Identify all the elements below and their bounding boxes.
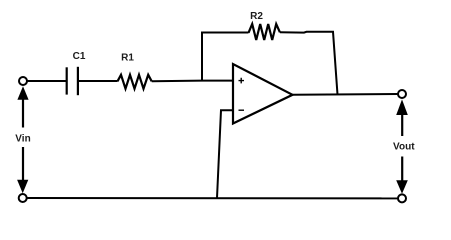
resistor R2: [249, 24, 280, 40]
svg-text:Vin: Vin: [15, 134, 30, 145]
terminal: Vin bottom-left: [19, 194, 27, 202]
wire: bottom rail: [27, 197, 398, 199]
Vin arrow (double-headed, between left terminals): [17, 86, 29, 193]
op-amp - input marking: [239, 109, 245, 111]
Vout arrow (double-headed, between right terminals): [396, 99, 408, 193]
svg-text:R1: R1: [121, 53, 134, 64]
svg-text:C1: C1: [73, 51, 86, 62]
op-amp U1: [233, 64, 293, 124]
op-amp + input marking: [239, 78, 245, 84]
wire: Vin+ terminal to C1 left plate: [27, 80, 66, 82]
wire: C1 right plate to R1: [79, 80, 118, 82]
wire: R2 right lead to output node (corner and slanted drop): [280, 32, 338, 95]
resistor R1: [118, 75, 152, 89]
terminal: Vin top-left: [19, 77, 27, 85]
terminal: Vout bottom-right: [398, 194, 406, 202]
capacitor C1: [67, 67, 78, 95]
wire: R1 to op-amp non-inverting input (through node A): [152, 80, 233, 83]
wire: op-amp inverting input down to bottom rail: [217, 110, 233, 198]
wire: node A up and right to R2 left lead: [202, 33, 249, 82]
svg-text:Vout: Vout: [393, 141, 415, 152]
wire: op-amp output to Vout+ terminal: [293, 93, 399, 96]
svg-text:R2: R2: [250, 11, 263, 22]
terminal: Vout top-right: [398, 90, 406, 98]
